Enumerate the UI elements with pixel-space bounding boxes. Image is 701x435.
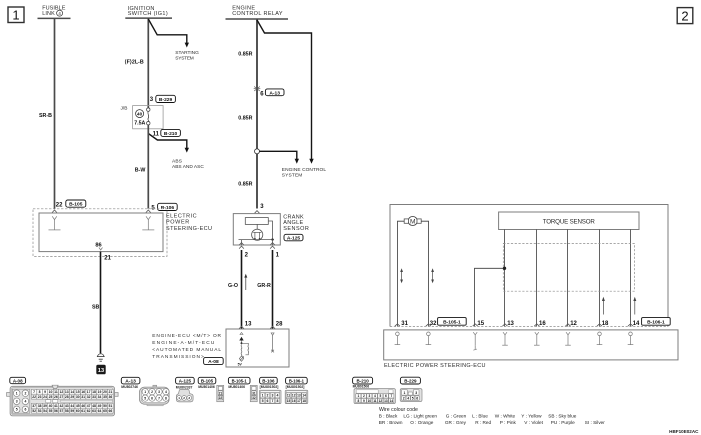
pin 1 xyxy=(276,252,280,258)
internal terminal pin 22 xyxy=(49,216,61,230)
svg-text:A-125: A-125 xyxy=(287,236,301,242)
svg-text:SB : Sky blue: SB : Sky blue xyxy=(548,413,577,418)
svg-text:5: 5 xyxy=(262,399,264,403)
svg-text:[MU801502]: [MU801502] xyxy=(286,385,305,389)
svg-text:W : White: W : White xyxy=(495,413,516,418)
svg-text:2: 2 xyxy=(183,396,185,400)
svg-text:11: 11 xyxy=(54,390,58,394)
svg-text:2: 2 xyxy=(363,394,365,398)
svg-text:Y : Yellow: Y : Yellow xyxy=(521,413,542,418)
svg-text:7: 7 xyxy=(391,394,393,398)
steering motor M xyxy=(404,216,421,225)
svg-text:5: 5 xyxy=(144,396,146,400)
svg-text:32: 32 xyxy=(87,395,91,399)
svg-text:2: 2 xyxy=(24,391,26,395)
pin 16 xyxy=(539,321,546,327)
page marker 1 xyxy=(8,7,24,23)
pin 11 xyxy=(153,132,160,138)
svg-text:27: 27 xyxy=(59,395,63,399)
svg-text:9: 9 xyxy=(363,399,365,403)
svg-text:G : Green: G : Green xyxy=(446,413,467,418)
svg-text:MU802337: MU802337 xyxy=(176,386,193,390)
pin 6 xyxy=(260,92,264,98)
svg-text:1: 1 xyxy=(262,394,264,398)
wire SB ground lead xyxy=(92,252,101,354)
wire B-W xyxy=(135,125,149,209)
svg-text:1: 1 xyxy=(178,396,180,400)
svg-text:20: 20 xyxy=(103,390,107,394)
svg-text:14: 14 xyxy=(390,399,394,403)
svg-text:12: 12 xyxy=(59,390,63,394)
svg-text:35: 35 xyxy=(103,395,107,399)
svg-text:16: 16 xyxy=(292,399,296,403)
svg-text:9: 9 xyxy=(44,390,46,394)
svg-text:4: 4 xyxy=(276,394,278,398)
connector label A-125 xyxy=(176,377,195,384)
svg-text:44: 44 xyxy=(70,404,74,408)
svg-text:25: 25 xyxy=(49,395,53,399)
svg-text:ABS AND ASC: ABS AND ASC xyxy=(172,164,204,170)
svg-text:22: 22 xyxy=(32,395,36,399)
svg-text:HBF10E02AC: HBF10E02AC xyxy=(669,429,699,434)
pin 3 crank sensor xyxy=(260,204,264,210)
svg-text:62: 62 xyxy=(87,409,91,413)
svg-text:12: 12 xyxy=(570,321,577,327)
svg-text:65: 65 xyxy=(103,409,107,413)
svg-text:B-229: B-229 xyxy=(159,97,173,103)
pin 31 xyxy=(401,321,408,327)
pin 3 xyxy=(150,97,154,103)
motor lead left to pin 31 xyxy=(398,221,405,326)
svg-text:MU802746: MU802746 xyxy=(121,385,138,389)
svg-text:14: 14 xyxy=(633,321,640,327)
engine ECU caption xyxy=(152,333,221,360)
ECU terminal 14 xyxy=(628,324,634,345)
svg-text:B-105-1: B-105-1 xyxy=(443,320,461,326)
svg-text:60: 60 xyxy=(76,409,80,413)
svg-text:6: 6 xyxy=(267,399,269,403)
torque sensor dashed group xyxy=(503,243,634,291)
svg-text:SENSOR: SENSOR xyxy=(283,226,309,232)
svg-text:38: 38 xyxy=(38,404,42,408)
branch to ABS xyxy=(148,129,204,170)
fuse 40 7.5A xyxy=(134,108,150,127)
svg-text:2: 2 xyxy=(681,8,688,23)
terminal into ECU pin 22 xyxy=(52,210,57,213)
connector label B-106 bottom xyxy=(260,377,278,384)
svg-text:B : Black: B : Black xyxy=(379,413,398,418)
svg-text:STARTING: STARTING xyxy=(175,50,199,56)
svg-text:13: 13 xyxy=(245,322,252,328)
svg-text:SR-B: SR-B xyxy=(39,113,52,119)
internal terminal pin 5 xyxy=(142,216,154,230)
svg-text:SYSTEM: SYSTEM xyxy=(175,56,194,62)
svg-text:R : Red: R : Red xyxy=(475,420,491,425)
connector label B-106 xyxy=(158,203,178,211)
svg-text:30: 30 xyxy=(76,395,80,399)
svg-text:B-105-1: B-105-1 xyxy=(232,379,248,384)
svg-text:15: 15 xyxy=(477,321,484,327)
svg-text:J/B: J/B xyxy=(121,106,128,112)
svg-text:12: 12 xyxy=(292,394,296,398)
svg-text:M: M xyxy=(410,218,416,225)
svg-text:5V: 5V xyxy=(238,363,243,367)
svg-text:17: 17 xyxy=(297,399,301,403)
svg-text:13: 13 xyxy=(507,321,514,327)
terminal into crank sensor xyxy=(255,211,260,218)
svg-text:1: 1 xyxy=(144,390,146,394)
ignition switch header xyxy=(125,6,172,18)
svg-text:16: 16 xyxy=(539,321,546,327)
svg-text:SWITCH (IG1): SWITCH (IG1) xyxy=(128,11,168,17)
svg-text:TRANSMISSION>: TRANSMISSION> xyxy=(152,354,204,360)
connector diagram A-13 xyxy=(121,385,169,406)
ground point label 13 xyxy=(96,365,105,375)
engine ECU pin13 input network xyxy=(238,326,249,366)
svg-text:43: 43 xyxy=(65,404,69,408)
svg-text:7: 7 xyxy=(158,396,160,400)
branch to starting system xyxy=(148,19,199,62)
svg-text:37: 37 xyxy=(32,404,36,408)
svg-text:<AUTOMATED MANUAL: <AUTOMATED MANUAL xyxy=(152,347,221,353)
svg-text:1: 1 xyxy=(403,391,405,395)
svg-text:11: 11 xyxy=(373,399,377,403)
svg-text:3: 3 xyxy=(369,394,371,398)
torque sensor lead 2 xyxy=(536,230,538,327)
wire GR-R xyxy=(257,250,272,330)
connector diagram B-229 xyxy=(400,389,422,402)
svg-text:A-13: A-13 xyxy=(125,379,136,385)
connector diagram B-106-1 xyxy=(285,385,308,404)
connector diagram B-210 xyxy=(353,385,396,404)
svg-text:8: 8 xyxy=(165,396,167,400)
svg-text:31: 31 xyxy=(252,391,256,395)
svg-text:22: 22 xyxy=(219,396,223,400)
EPS-ECU box left xyxy=(39,213,163,252)
junction block J/B xyxy=(121,106,164,129)
svg-text:6: 6 xyxy=(416,396,418,400)
svg-text:15: 15 xyxy=(76,390,80,394)
pin row dashed line xyxy=(390,326,668,328)
svg-text:6: 6 xyxy=(24,408,26,412)
svg-text:MU801406: MU801406 xyxy=(198,385,215,389)
svg-text:A-13: A-13 xyxy=(269,90,280,96)
ECU terminal 15 xyxy=(473,324,478,350)
pin 28 xyxy=(276,322,283,328)
svg-text:O : Orange: O : Orange xyxy=(410,420,434,425)
svg-text:51: 51 xyxy=(109,404,113,408)
svg-text:19: 19 xyxy=(98,390,102,394)
svg-text:3: 3 xyxy=(158,390,160,394)
svg-text:B-106-1: B-106-1 xyxy=(647,320,665,326)
crank sensor pin terminals xyxy=(239,243,275,249)
svg-text:59: 59 xyxy=(70,409,74,413)
svg-text:SYSTEM: SYSTEM xyxy=(282,173,303,179)
pin 32 xyxy=(430,321,437,327)
svg-text:1: 1 xyxy=(16,391,18,395)
svg-text:7: 7 xyxy=(272,399,274,403)
svg-text:5: 5 xyxy=(380,394,382,398)
svg-text:2: 2 xyxy=(267,394,269,398)
svg-text:4: 4 xyxy=(407,396,409,400)
crank angle sensor box xyxy=(233,214,280,245)
svg-text:3: 3 xyxy=(272,394,274,398)
svg-text:45: 45 xyxy=(76,404,80,408)
svg-text:4: 4 xyxy=(165,390,167,394)
svg-text:A-125: A-125 xyxy=(179,379,192,384)
svg-text:4: 4 xyxy=(24,400,26,404)
svg-text:5: 5 xyxy=(412,396,414,400)
svg-text:57: 57 xyxy=(59,409,63,413)
pin 13 xyxy=(245,322,252,328)
svg-text:SI : Silver: SI : Silver xyxy=(585,420,605,425)
torque sensor box xyxy=(499,212,639,230)
svg-text:12: 12 xyxy=(379,399,383,403)
svg-text:3: 3 xyxy=(415,391,417,395)
svg-text:BR : Brown: BR : Brown xyxy=(379,420,403,425)
wire pin 15 to node xyxy=(475,268,505,326)
svg-text:GR : Grey: GR : Grey xyxy=(445,420,467,425)
svg-text:8: 8 xyxy=(358,399,360,403)
svg-text:Wire colour code: Wire colour code xyxy=(379,407,418,413)
motor current arrow left xyxy=(400,268,403,283)
svg-text:28: 28 xyxy=(65,395,69,399)
ECU terminal 13 xyxy=(502,324,508,345)
svg-text:2: 2 xyxy=(403,396,405,400)
svg-text:8: 8 xyxy=(276,399,278,403)
connector label B-105 xyxy=(66,200,86,208)
svg-text:36: 36 xyxy=(109,395,113,399)
svg-text:7.5A: 7.5A xyxy=(134,121,145,127)
crank sensor internal wiring xyxy=(239,221,275,245)
svg-text:56: 56 xyxy=(54,409,58,413)
crank sensor caption xyxy=(283,214,309,232)
svg-text:B-106: B-106 xyxy=(262,379,275,384)
svg-text:13: 13 xyxy=(98,368,104,374)
svg-text:0.85R: 0.85R xyxy=(238,115,252,121)
svg-text:B-210: B-210 xyxy=(164,131,178,137)
pin 18 xyxy=(602,321,609,327)
svg-text:[MU801502]: [MU801502] xyxy=(260,385,279,389)
inline connector joint xyxy=(254,87,261,92)
svg-text:ABS: ABS xyxy=(172,158,182,164)
svg-text:1: 1 xyxy=(358,394,360,398)
connector diagram B-105-1 xyxy=(228,385,257,402)
svg-text:17: 17 xyxy=(87,390,91,394)
connector label A-08 inline xyxy=(204,357,224,365)
svg-text:40: 40 xyxy=(137,112,143,117)
signal arrow pin 18 xyxy=(602,297,605,315)
svg-text:10: 10 xyxy=(49,390,53,394)
page marker 2 xyxy=(677,8,693,24)
svg-text:49: 49 xyxy=(98,404,102,408)
svg-text:LG : Light green: LG : Light green xyxy=(403,413,437,418)
wire 0.85R relay feed xyxy=(238,20,257,209)
connector label B-105-1 bottom xyxy=(228,377,250,384)
svg-text:13: 13 xyxy=(384,399,388,403)
pin 21 xyxy=(104,255,111,261)
signal arrow pin 14 xyxy=(633,297,636,315)
svg-text:11: 11 xyxy=(287,394,291,398)
svg-text:5: 5 xyxy=(16,408,18,412)
svg-text:V : Violet: V : Violet xyxy=(524,420,543,425)
torque sensor lead 1 xyxy=(504,230,506,327)
svg-text:34: 34 xyxy=(98,395,102,399)
svg-text:29: 29 xyxy=(70,395,74,399)
svg-text:B-106: B-106 xyxy=(161,205,175,211)
crank sensor pickup element xyxy=(245,218,268,225)
svg-text:B-106-1: B-106-1 xyxy=(289,379,305,384)
branch to engine control system long xyxy=(257,20,314,164)
wire G-O xyxy=(228,250,242,330)
svg-text:14: 14 xyxy=(302,394,306,398)
signal direction arrow xyxy=(244,274,247,290)
wire SR-B xyxy=(39,19,55,209)
document number xyxy=(669,429,699,434)
svg-text:50: 50 xyxy=(103,404,107,408)
connector label A-08 xyxy=(10,377,26,383)
svg-text:G-O: G-O xyxy=(228,283,238,289)
pin 22 xyxy=(56,202,63,208)
svg-text:1: 1 xyxy=(12,8,19,23)
svg-text:7: 7 xyxy=(33,390,35,394)
pin 12 xyxy=(570,321,577,327)
svg-text:32: 32 xyxy=(252,396,256,400)
svg-text:54: 54 xyxy=(43,409,47,413)
ECU terminal 16 xyxy=(534,324,540,345)
svg-text:6: 6 xyxy=(151,396,153,400)
svg-text:13: 13 xyxy=(65,390,69,394)
pin 5 xyxy=(151,206,155,212)
pin 13 xyxy=(507,321,514,327)
junction circle xyxy=(255,149,260,154)
svg-text:22: 22 xyxy=(56,202,63,208)
svg-text:52: 52 xyxy=(32,409,36,413)
EPS assembly outer box xyxy=(390,205,668,327)
svg-text:64: 64 xyxy=(98,409,102,413)
svg-text:48: 48 xyxy=(92,404,96,408)
svg-text:21: 21 xyxy=(104,255,111,261)
crank sensor hall unit xyxy=(252,229,263,240)
svg-text:MU801406: MU801406 xyxy=(228,385,245,389)
connector label B-229 bottom xyxy=(400,377,420,384)
EPS-ECU right caption xyxy=(384,363,486,369)
svg-text:⟨F⟩2L-B: ⟨F⟩2L-B xyxy=(125,60,144,66)
EPS-ECU box right xyxy=(384,330,678,360)
motor lead right to pin 32 xyxy=(421,221,428,326)
pin 15 xyxy=(477,321,484,327)
svg-text:B-105: B-105 xyxy=(69,202,83,208)
svg-text:41: 41 xyxy=(54,404,58,408)
svg-text:B-W: B-W xyxy=(135,168,146,174)
svg-text:46: 46 xyxy=(81,404,85,408)
ECU terminal 18 xyxy=(597,324,603,345)
connector diagram B-106 xyxy=(259,385,281,404)
svg-text:58: 58 xyxy=(65,409,69,413)
svg-text:TORQUE SENSOR: TORQUE SENSOR xyxy=(543,218,596,225)
connector label B-210 bottom xyxy=(353,377,373,384)
svg-text:13: 13 xyxy=(297,394,301,398)
connector label B-105-1 xyxy=(438,318,467,326)
pin 14 xyxy=(633,321,640,327)
svg-text:66: 66 xyxy=(109,409,113,413)
svg-text:0.85R: 0.85R xyxy=(238,51,252,57)
svg-text:26: 26 xyxy=(54,395,58,399)
svg-text:4: 4 xyxy=(374,394,376,398)
svg-text:B-210: B-210 xyxy=(356,379,369,384)
wire 2L-B ignition feed xyxy=(125,19,149,108)
svg-text:61: 61 xyxy=(81,409,85,413)
engine control relay header xyxy=(226,6,289,20)
torque sensor lead 4 xyxy=(599,230,601,327)
ECU terminal 12 xyxy=(565,324,571,345)
connector label B-105 bottom xyxy=(198,377,216,384)
svg-text:40: 40 xyxy=(49,404,53,408)
svg-text:18: 18 xyxy=(302,399,306,403)
svg-text:0.85R: 0.85R xyxy=(238,181,252,187)
connector label A-13 inline xyxy=(265,89,284,96)
ECU terminal 31 xyxy=(395,324,401,345)
terminal into ECU pin 5 xyxy=(146,210,151,213)
svg-text:A-08: A-08 xyxy=(208,359,219,365)
svg-text:33: 33 xyxy=(92,395,96,399)
wire colour code legend xyxy=(379,407,605,425)
svg-text:31: 31 xyxy=(401,321,408,327)
svg-text:GR-R: GR-R xyxy=(257,283,271,289)
connector diagram A-125 xyxy=(176,386,193,402)
connector label B-210 inline xyxy=(161,129,181,137)
connector diagram A-08 xyxy=(7,385,119,416)
EPS-ECU caption xyxy=(166,214,212,232)
svg-text:28: 28 xyxy=(276,322,283,328)
motor current arrow right xyxy=(431,268,434,283)
svg-text:B-105: B-105 xyxy=(201,379,214,384)
svg-text:31: 31 xyxy=(81,395,85,399)
svg-text:ENGINE-A-M/T-ECU: ENGINE-A-M/T-ECU xyxy=(152,340,215,346)
connector label B-229 xyxy=(156,95,176,103)
svg-text:ENGINE-ECU <M/T> OR: ENGINE-ECU <M/T> OR xyxy=(152,333,221,339)
svg-text:2: 2 xyxy=(151,390,153,394)
svg-text:10: 10 xyxy=(368,399,372,403)
svg-text:47: 47 xyxy=(87,404,91,408)
svg-text:ELECTRIC POWER STEERING-ECU: ELECTRIC POWER STEERING-ECU xyxy=(384,363,486,369)
svg-text:39: 39 xyxy=(43,404,47,408)
svg-text:18: 18 xyxy=(92,390,96,394)
svg-text:3: 3 xyxy=(188,396,190,400)
svg-text:14: 14 xyxy=(70,390,74,394)
svg-text:18: 18 xyxy=(602,321,609,327)
svg-text:16: 16 xyxy=(81,390,85,394)
junction node xyxy=(503,267,506,270)
ECU terminal 32 xyxy=(426,324,432,345)
svg-text:3: 3 xyxy=(16,400,18,404)
svg-text:LINK: LINK xyxy=(42,11,55,17)
svg-text:63: 63 xyxy=(92,409,96,413)
engine ECU pin28 input xyxy=(270,326,275,352)
pin 2 xyxy=(245,252,249,258)
svg-text:42: 42 xyxy=(59,404,63,408)
fusible link header xyxy=(38,6,71,19)
svg-text:23: 23 xyxy=(38,395,42,399)
svg-text:6: 6 xyxy=(385,394,387,398)
svg-text:A-08: A-08 xyxy=(13,378,23,383)
svg-text:86: 86 xyxy=(95,242,101,248)
svg-text:15: 15 xyxy=(287,399,291,403)
svg-text:SB: SB xyxy=(92,305,100,311)
branch to engine control system short xyxy=(260,151,327,178)
connector label B-106-1 bottom xyxy=(286,377,308,384)
svg-text:MU801506: MU801506 xyxy=(353,385,370,389)
